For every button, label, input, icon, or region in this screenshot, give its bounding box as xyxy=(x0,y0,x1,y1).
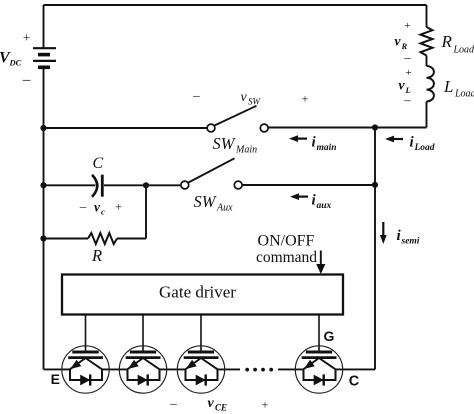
svg-text:v: v xyxy=(241,90,248,105)
svg-text:–: – xyxy=(403,92,411,107)
svg-text:L: L xyxy=(443,77,453,96)
svg-text:G: G xyxy=(324,328,335,344)
svg-text:semi: semi xyxy=(401,237,420,247)
svg-text:R: R xyxy=(91,246,102,265)
svg-text:SW: SW xyxy=(248,97,262,107)
svg-text:+: + xyxy=(115,200,122,214)
svg-text:aux: aux xyxy=(317,201,332,211)
svg-text:+: + xyxy=(23,30,30,45)
svg-text:ON/OFF: ON/OFF xyxy=(258,233,315,250)
svg-text:–: – xyxy=(79,199,87,214)
svg-text:Main: Main xyxy=(235,145,257,156)
svg-text:+: + xyxy=(405,67,411,79)
svg-text:–: – xyxy=(192,88,200,103)
svg-text:CE: CE xyxy=(215,403,227,413)
svg-text:v: v xyxy=(208,396,215,411)
svg-text:v: v xyxy=(94,200,101,215)
svg-text:Gate driver: Gate driver xyxy=(159,283,236,302)
svg-text:command: command xyxy=(256,249,317,266)
svg-text:+: + xyxy=(262,398,269,412)
svg-text:DC: DC xyxy=(9,58,22,68)
svg-text:Load: Load xyxy=(414,143,435,153)
svg-text:C: C xyxy=(349,374,360,390)
svg-text:c: c xyxy=(101,207,105,217)
svg-text:Load: Load xyxy=(453,45,474,56)
svg-text:+: + xyxy=(404,20,410,32)
svg-text:SW: SW xyxy=(213,134,236,153)
svg-text:SW: SW xyxy=(194,192,217,211)
svg-text:Load: Load xyxy=(454,89,474,100)
svg-text:v: v xyxy=(395,34,402,49)
svg-text:+: + xyxy=(302,92,309,106)
svg-text:–: – xyxy=(403,50,411,65)
svg-text:–: – xyxy=(22,72,31,88)
svg-text:E: E xyxy=(51,371,60,387)
svg-text:R: R xyxy=(441,32,453,51)
svg-text:C: C xyxy=(93,155,104,172)
svg-text:Aux: Aux xyxy=(216,203,233,214)
svg-text:–: – xyxy=(169,396,177,411)
svg-text:main: main xyxy=(317,143,337,153)
svg-text:v: v xyxy=(399,78,406,93)
